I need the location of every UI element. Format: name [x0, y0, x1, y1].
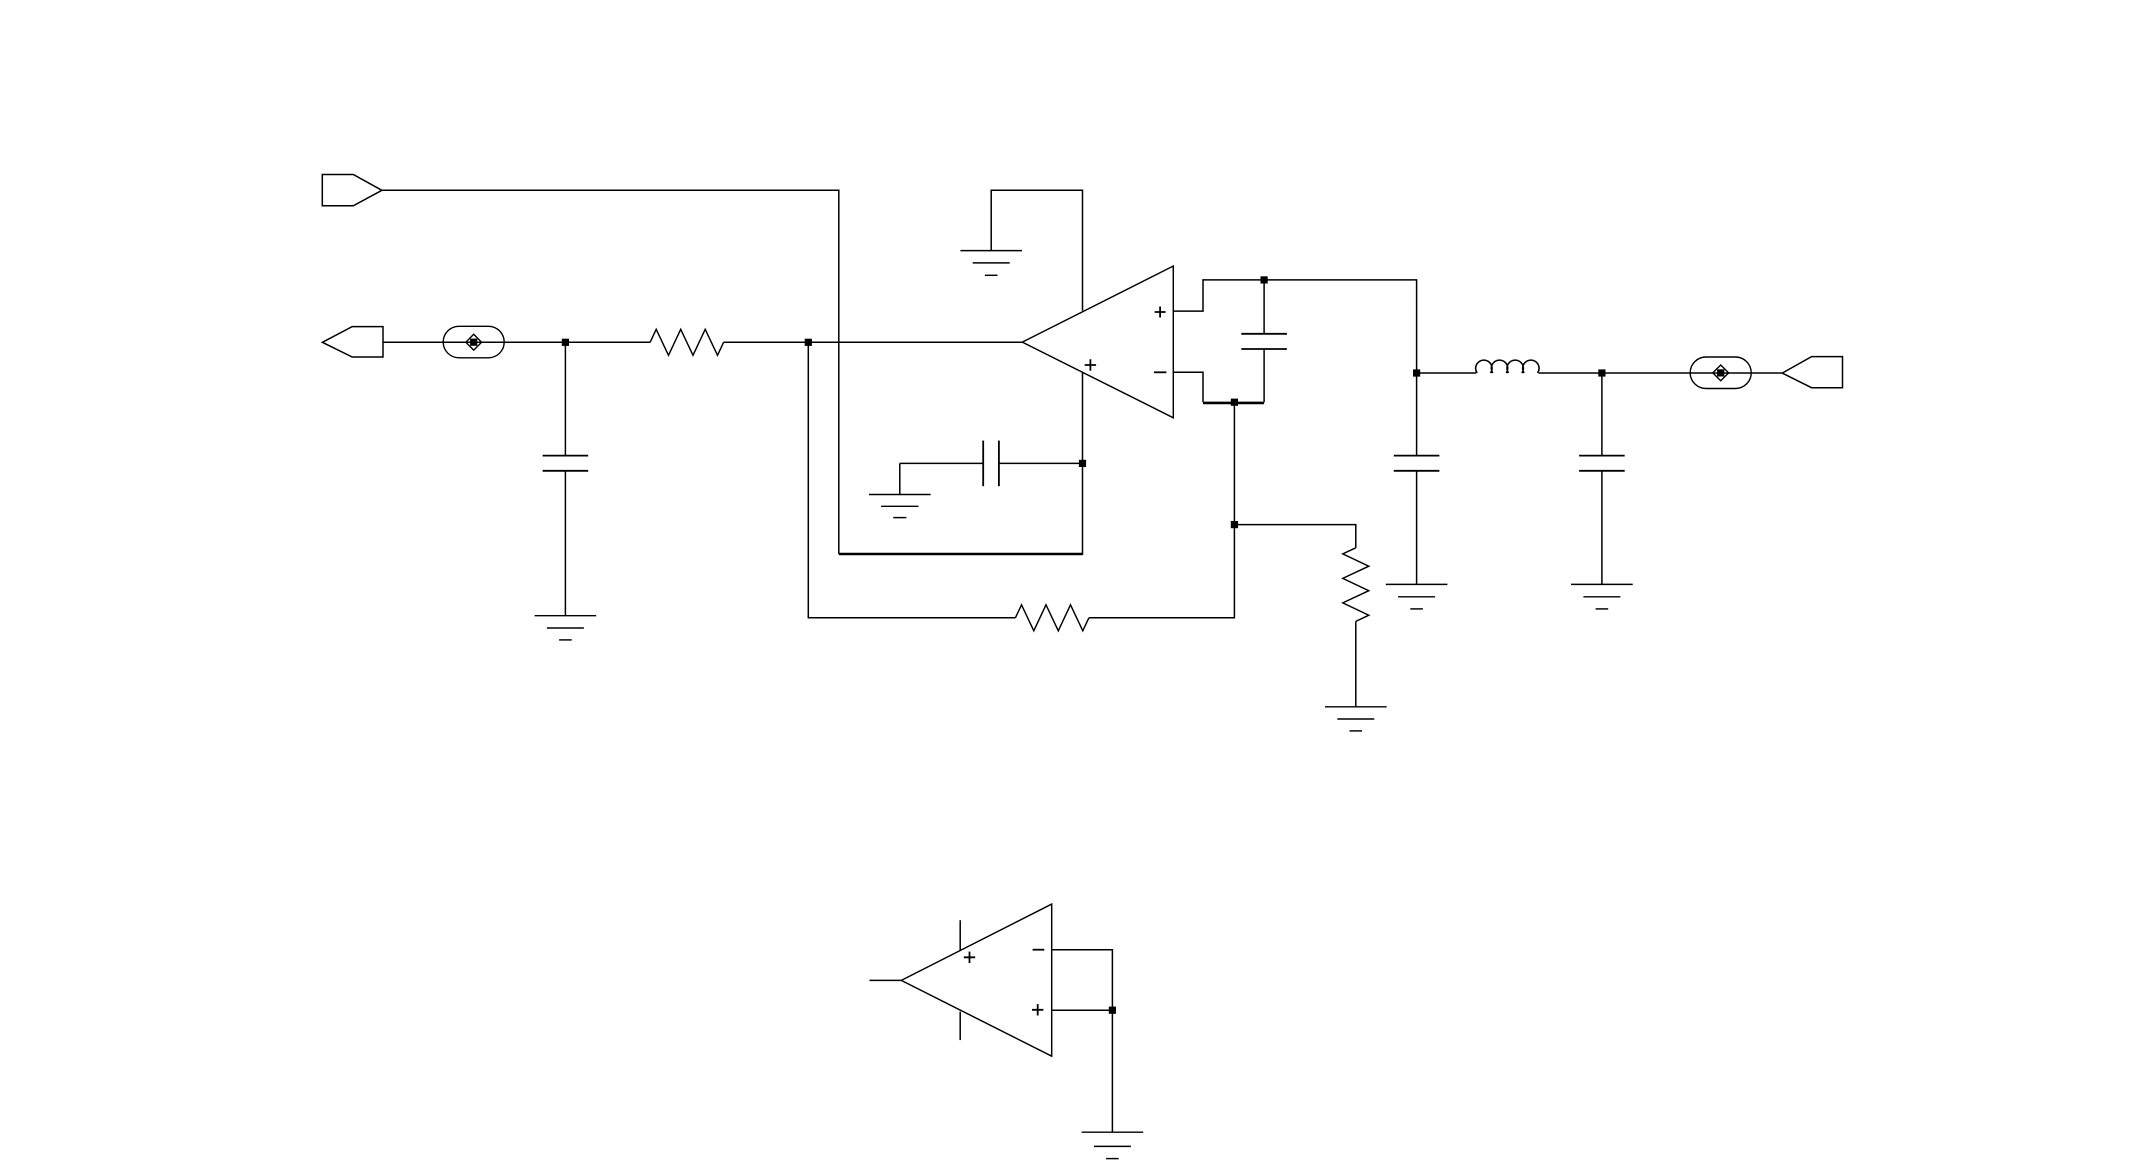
U1 - pin wire with step down to J4 — [1173, 372, 1203, 402]
port P3 (output, pointing left) — [1782, 357, 1842, 388]
ground G5 (under C5) — [1571, 584, 1633, 609]
wire P2 to R1 — [383, 341, 650, 343]
wire (thick) J4 to C2 bottom lead — [1203, 402, 1264, 405]
junction J5 — [1231, 521, 1238, 528]
wire J9 to ground G7 — [1111, 1010, 1113, 1132]
inductor L1 — [1417, 372, 1476, 374]
wire R1 to U1 input apex — [724, 341, 1023, 343]
ground G2 (under C1) — [535, 616, 597, 640]
U2 - pin wire down to junction J9 — [1052, 950, 1113, 1011]
U2 V+ stub (top) — [959, 920, 961, 950]
U2 non-inverting input label + — [1032, 1004, 1043, 1015]
wire loop up to U1 V- stub — [1082, 373, 1084, 555]
junction J3 — [1261, 276, 1268, 283]
capacitor C4 — [1394, 373, 1440, 584]
junction J1 — [562, 339, 569, 346]
U1 V+ label (big plus) — [1085, 359, 1096, 370]
U2 + pin wire — [1052, 1009, 1113, 1011]
capacitor C3 (horizontal, to supply loop) — [900, 441, 1083, 495]
wire J5 to R3 — [1234, 525, 1355, 548]
junction J9 — [1109, 1007, 1116, 1014]
wire P1 tip right then down (supply loop) — [382, 190, 839, 554]
testpoint TP2 — [1690, 357, 1751, 389]
resistor R1 — [650, 329, 724, 355]
port P2 (left, pointing left) — [322, 327, 383, 357]
junction J4 — [1231, 399, 1238, 406]
ground G1 — [960, 251, 1022, 276]
ground G3 (under R3) — [1325, 707, 1387, 731]
junction J6 — [1413, 369, 1420, 376]
wire R2 to inverting node (up to J4) — [1089, 402, 1235, 618]
U2 inverting input label - — [1033, 949, 1045, 951]
wire R3 to ground G3 — [1355, 621, 1357, 706]
wire bottom thick segment of loop — [839, 553, 1083, 556]
testpoint TP1 (stadium with diamond) — [443, 326, 504, 358]
port P1 (input, top-left, pointing right) — [322, 175, 382, 206]
resistor R2 (feedback) — [1015, 605, 1089, 631]
U1 + pin wire with step up to J3 then to J6 — [1173, 280, 1416, 373]
ground G7 (U2) — [1082, 1132, 1144, 1158]
wire feedback: J2 down and right to R2 — [808, 342, 1015, 618]
capacitor C5 — [1579, 373, 1625, 584]
capacitor C1 — [543, 342, 589, 615]
junction J2 — [805, 339, 812, 346]
op-amp U2 (bottom, pointing left) — [901, 904, 1051, 1056]
junction J8 (C3 to loop wire) — [1079, 460, 1086, 467]
resistor R3 (vertical) — [1343, 548, 1369, 622]
ground G6 (C3) — [869, 495, 931, 518]
U2 V+ label (big plus) — [964, 952, 975, 963]
U1 non-inverting input label + — [1155, 307, 1166, 318]
U2 output stub — [870, 979, 902, 981]
U1 inverting input label - — [1154, 371, 1166, 373]
capacitor C2 — [1241, 280, 1287, 402]
ground G4 (under C4) — [1386, 584, 1448, 609]
U2 V- stub (bottom) — [959, 1012, 961, 1041]
junction J7 — [1598, 369, 1605, 376]
wire U1 V+ stub up, left, down to ground G1 — [991, 190, 1082, 310]
op-amp U1 (pointing left) — [1022, 266, 1173, 418]
wire L1 to output port P3 — [1602, 372, 1782, 374]
